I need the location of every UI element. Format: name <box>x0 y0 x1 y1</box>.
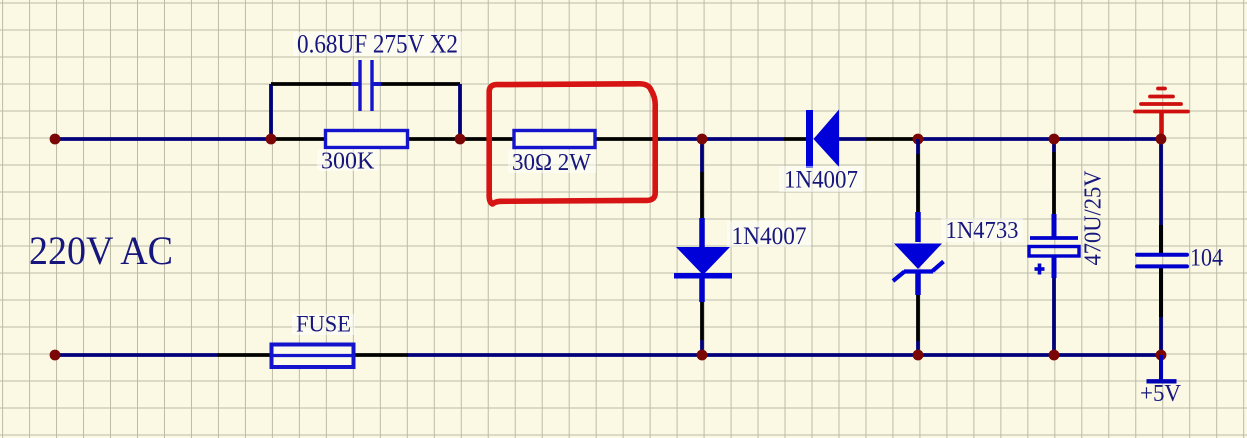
wire from diode D1 (navy) <box>838 137 866 141</box>
capacitor C2 electrolytic 470U/25V <box>1029 238 1079 275</box>
+5V port stem <box>1159 355 1163 381</box>
wire to node at x918 (black) <box>866 137 918 141</box>
svg-text:+5V: +5V <box>1140 381 1182 407</box>
diode D1 value label 1N4007 <box>779 166 863 192</box>
wire through fuse (black) <box>354 353 408 357</box>
capacitor C1 branch wire right vertical (navy) <box>458 84 462 139</box>
wire vertical at x918 <box>916 139 920 154</box>
wire top rail through 300K (black) <box>271 137 327 141</box>
node junction dot top of C1 branch right <box>455 134 466 145</box>
zener diode D3 1N4733 symbol <box>893 244 944 282</box>
svg-text:470U/25V: 470U/25V <box>1081 170 1107 266</box>
capacitor C3 104 <box>1137 255 1187 267</box>
diode D1 1N4007 horizontal symbol <box>806 110 839 169</box>
+5V port bar <box>1147 379 1177 383</box>
node junction dot at x702 top <box>697 134 708 145</box>
ground (earth) symbol red <box>1135 89 1188 140</box>
svg-text:300K: 300K <box>321 149 375 175</box>
wire to diode D1 (black) <box>784 137 806 141</box>
wire bottom rail left (navy) <box>55 353 217 357</box>
diode D2 1N4007 vertical symbol <box>674 247 732 279</box>
node junction dot bottom x918 <box>913 350 924 361</box>
resistor R1 value label 300K <box>317 149 379 171</box>
svg-text:220V AC: 220V AC <box>29 228 173 273</box>
svg-text:1N4007: 1N4007 <box>784 167 858 194</box>
wire top rail left (navy) <box>55 137 271 141</box>
wire between R1 and R2 (black) <box>406 137 515 141</box>
svg-text:1N4007: 1N4007 <box>732 223 807 250</box>
svg-text:30Ω 2W: 30Ω 2W <box>512 150 591 176</box>
node junction dot at left top <box>50 134 61 145</box>
wire vertical at x702 (navy/black/blue pin segments) <box>700 139 704 172</box>
capacitor C1 branch wire left vertical (navy) <box>269 84 273 139</box>
svg-text:0.68UF 275V X2: 0.68UF 275V X2 <box>297 30 458 59</box>
zener D3 value label 1N4733 <box>941 218 1023 242</box>
resistor R1 300K <box>326 131 408 148</box>
resistor R2 30ohm 2W <box>514 131 595 148</box>
fuse label FUSE <box>292 314 355 335</box>
diode D2 value label 1N4007 <box>727 221 811 247</box>
node junction dot bottom x1161 <box>1156 350 1167 361</box>
node junction dot top of C1 branch left <box>266 134 277 145</box>
node junction dot at x918 top <box>913 134 924 145</box>
wire vertical at x1161 top <box>1159 139 1163 225</box>
wire top rail right (navy) <box>918 137 1161 141</box>
wire bottom rail right (navy) <box>408 353 1161 357</box>
wire top rail mid (navy) <box>660 137 784 141</box>
wire to fuse (black) <box>217 353 271 357</box>
node junction dot bottom x702 <box>697 350 708 361</box>
svg-text:FUSE: FUSE <box>296 312 351 337</box>
svg-text:1N4733: 1N4733 <box>946 218 1019 244</box>
fuse F1 <box>272 345 354 368</box>
node junction dot at x1054 top <box>1049 134 1060 145</box>
node junction dot bottom left <box>50 350 61 361</box>
capacitor C1 branch wire top left (black) <box>271 82 358 86</box>
capacitor C1 branch wire top right (black) <box>374 82 460 86</box>
annotation red highlight box <box>489 84 655 204</box>
capacitor C1 value label 0.68UF 275V X2 <box>293 32 462 56</box>
wire vertical at x1054 <box>1052 139 1056 152</box>
node junction dot ground at x1161 top <box>1156 134 1167 145</box>
svg-text:104: 104 <box>1190 245 1223 272</box>
resistor R2 value label 30Ω 2W <box>508 150 596 173</box>
capacitor C1 plates <box>351 60 381 111</box>
node junction dot bottom x1054 <box>1049 350 1060 361</box>
wire after R2 (black) <box>594 137 660 141</box>
